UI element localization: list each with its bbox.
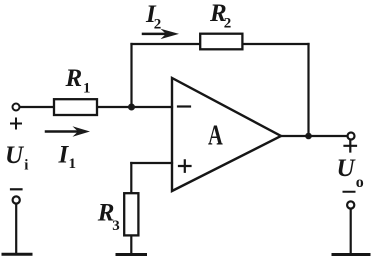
wire R2 to right corner: [244, 43, 309, 45]
wire feedback vertical left: [130, 44, 132, 107]
wire lower-right terminal to ground: [350, 209, 352, 253]
op-amp inverting input minus sign: [178, 105, 190, 107]
wire op-amp output: [281, 135, 348, 137]
plus sign at input port: [11, 119, 21, 129]
wire R1 to op-amp inverting input: [98, 106, 172, 108]
wire feedback vertical right: [307, 44, 309, 136]
svg-text:1: 1: [69, 156, 77, 172]
svg-text:i: i: [24, 158, 28, 174]
label I1: [58, 142, 77, 172]
label I2: [145, 1, 161, 32]
lower-left terminal circle: [13, 196, 20, 203]
wire non-inverting input horizontal: [131, 162, 172, 164]
node at output: [305, 133, 312, 140]
ground (lower right): [333, 253, 369, 256]
node at inverting input: [128, 104, 135, 111]
output terminal circle: [348, 133, 355, 140]
wire lower-left terminal to ground: [15, 204, 17, 253]
ground (lower left): [3, 253, 31, 256]
op-amp non-inverting plus sign: [179, 160, 191, 172]
wire input terminal to R1: [20, 106, 53, 108]
lower-right terminal circle: [347, 201, 354, 208]
current arrow I1: [46, 126, 90, 136]
svg-text:U: U: [337, 155, 357, 182]
plus sign at output port: [345, 140, 357, 152]
label R3: [97, 199, 120, 234]
svg-text:3: 3: [112, 218, 120, 234]
label Uo: [337, 155, 364, 191]
label R2: [209, 0, 231, 32]
current arrow I2: [143, 29, 179, 39]
svg-text:1: 1: [83, 81, 91, 97]
op-amp U1 triangle: [172, 78, 281, 191]
resistor R3: [124, 193, 138, 235]
svg-text:2: 2: [154, 16, 162, 32]
wire R3 to ground: [130, 237, 132, 254]
svg-text:R: R: [65, 65, 83, 92]
resistor R2: [200, 34, 242, 50]
svg-text:U: U: [5, 142, 25, 169]
label Ui: [5, 142, 28, 174]
wire non-inverting input down to R3: [130, 163, 132, 192]
ground (middle, below R3): [117, 253, 146, 256]
minus sign above lower-left terminal: [11, 188, 22, 190]
wire feedback top left to R2: [132, 43, 200, 45]
svg-text:2: 2: [224, 16, 232, 32]
svg-text:A: A: [208, 120, 223, 151]
svg-text:o: o: [356, 174, 364, 191]
input terminal (upper left circle): [13, 104, 20, 111]
dashed minus sign above lower-right terminal: [344, 191, 355, 193]
label R1: [65, 65, 91, 97]
resistor R1: [54, 99, 97, 115]
